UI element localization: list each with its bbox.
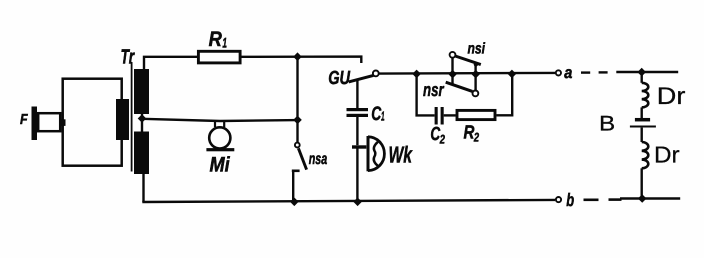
svg-text:Wk: Wk: [389, 141, 413, 167]
svg-text:Tr: Tr: [121, 45, 135, 68]
svg-text:nsr: nsr: [423, 79, 445, 100]
svg-text:b: b: [566, 190, 574, 210]
svg-text:nsa: nsa: [309, 151, 328, 168]
svg-text:2: 2: [439, 132, 445, 146]
svg-text:1: 1: [381, 109, 385, 124]
svg-text:GU: GU: [328, 68, 351, 89]
svg-text:nsi: nsi: [468, 41, 486, 58]
svg-text:a: a: [564, 64, 572, 82]
svg-text:Mi: Mi: [210, 153, 231, 176]
svg-text:1: 1: [222, 34, 227, 50]
svg-text:F: F: [20, 112, 29, 128]
svg-text:R: R: [209, 28, 223, 51]
svg-text:2: 2: [473, 130, 479, 144]
svg-text:B: B: [599, 112, 615, 136]
svg-text:Dr: Dr: [654, 141, 680, 167]
svg-text:Dr: Dr: [657, 83, 686, 110]
